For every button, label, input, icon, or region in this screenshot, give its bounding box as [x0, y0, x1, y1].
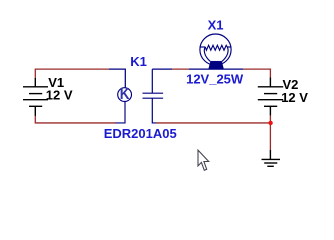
svg-text:12V_25W: 12V_25W	[186, 71, 244, 86]
svg-text:EDR201A05: EDR201A05	[104, 126, 177, 141]
svg-text:K1: K1	[130, 54, 147, 69]
svg-text:X1: X1	[208, 17, 224, 32]
svg-text:12 V: 12 V	[46, 87, 73, 102]
svg-text:K: K	[120, 86, 130, 103]
svg-text:12 V: 12 V	[281, 90, 308, 105]
